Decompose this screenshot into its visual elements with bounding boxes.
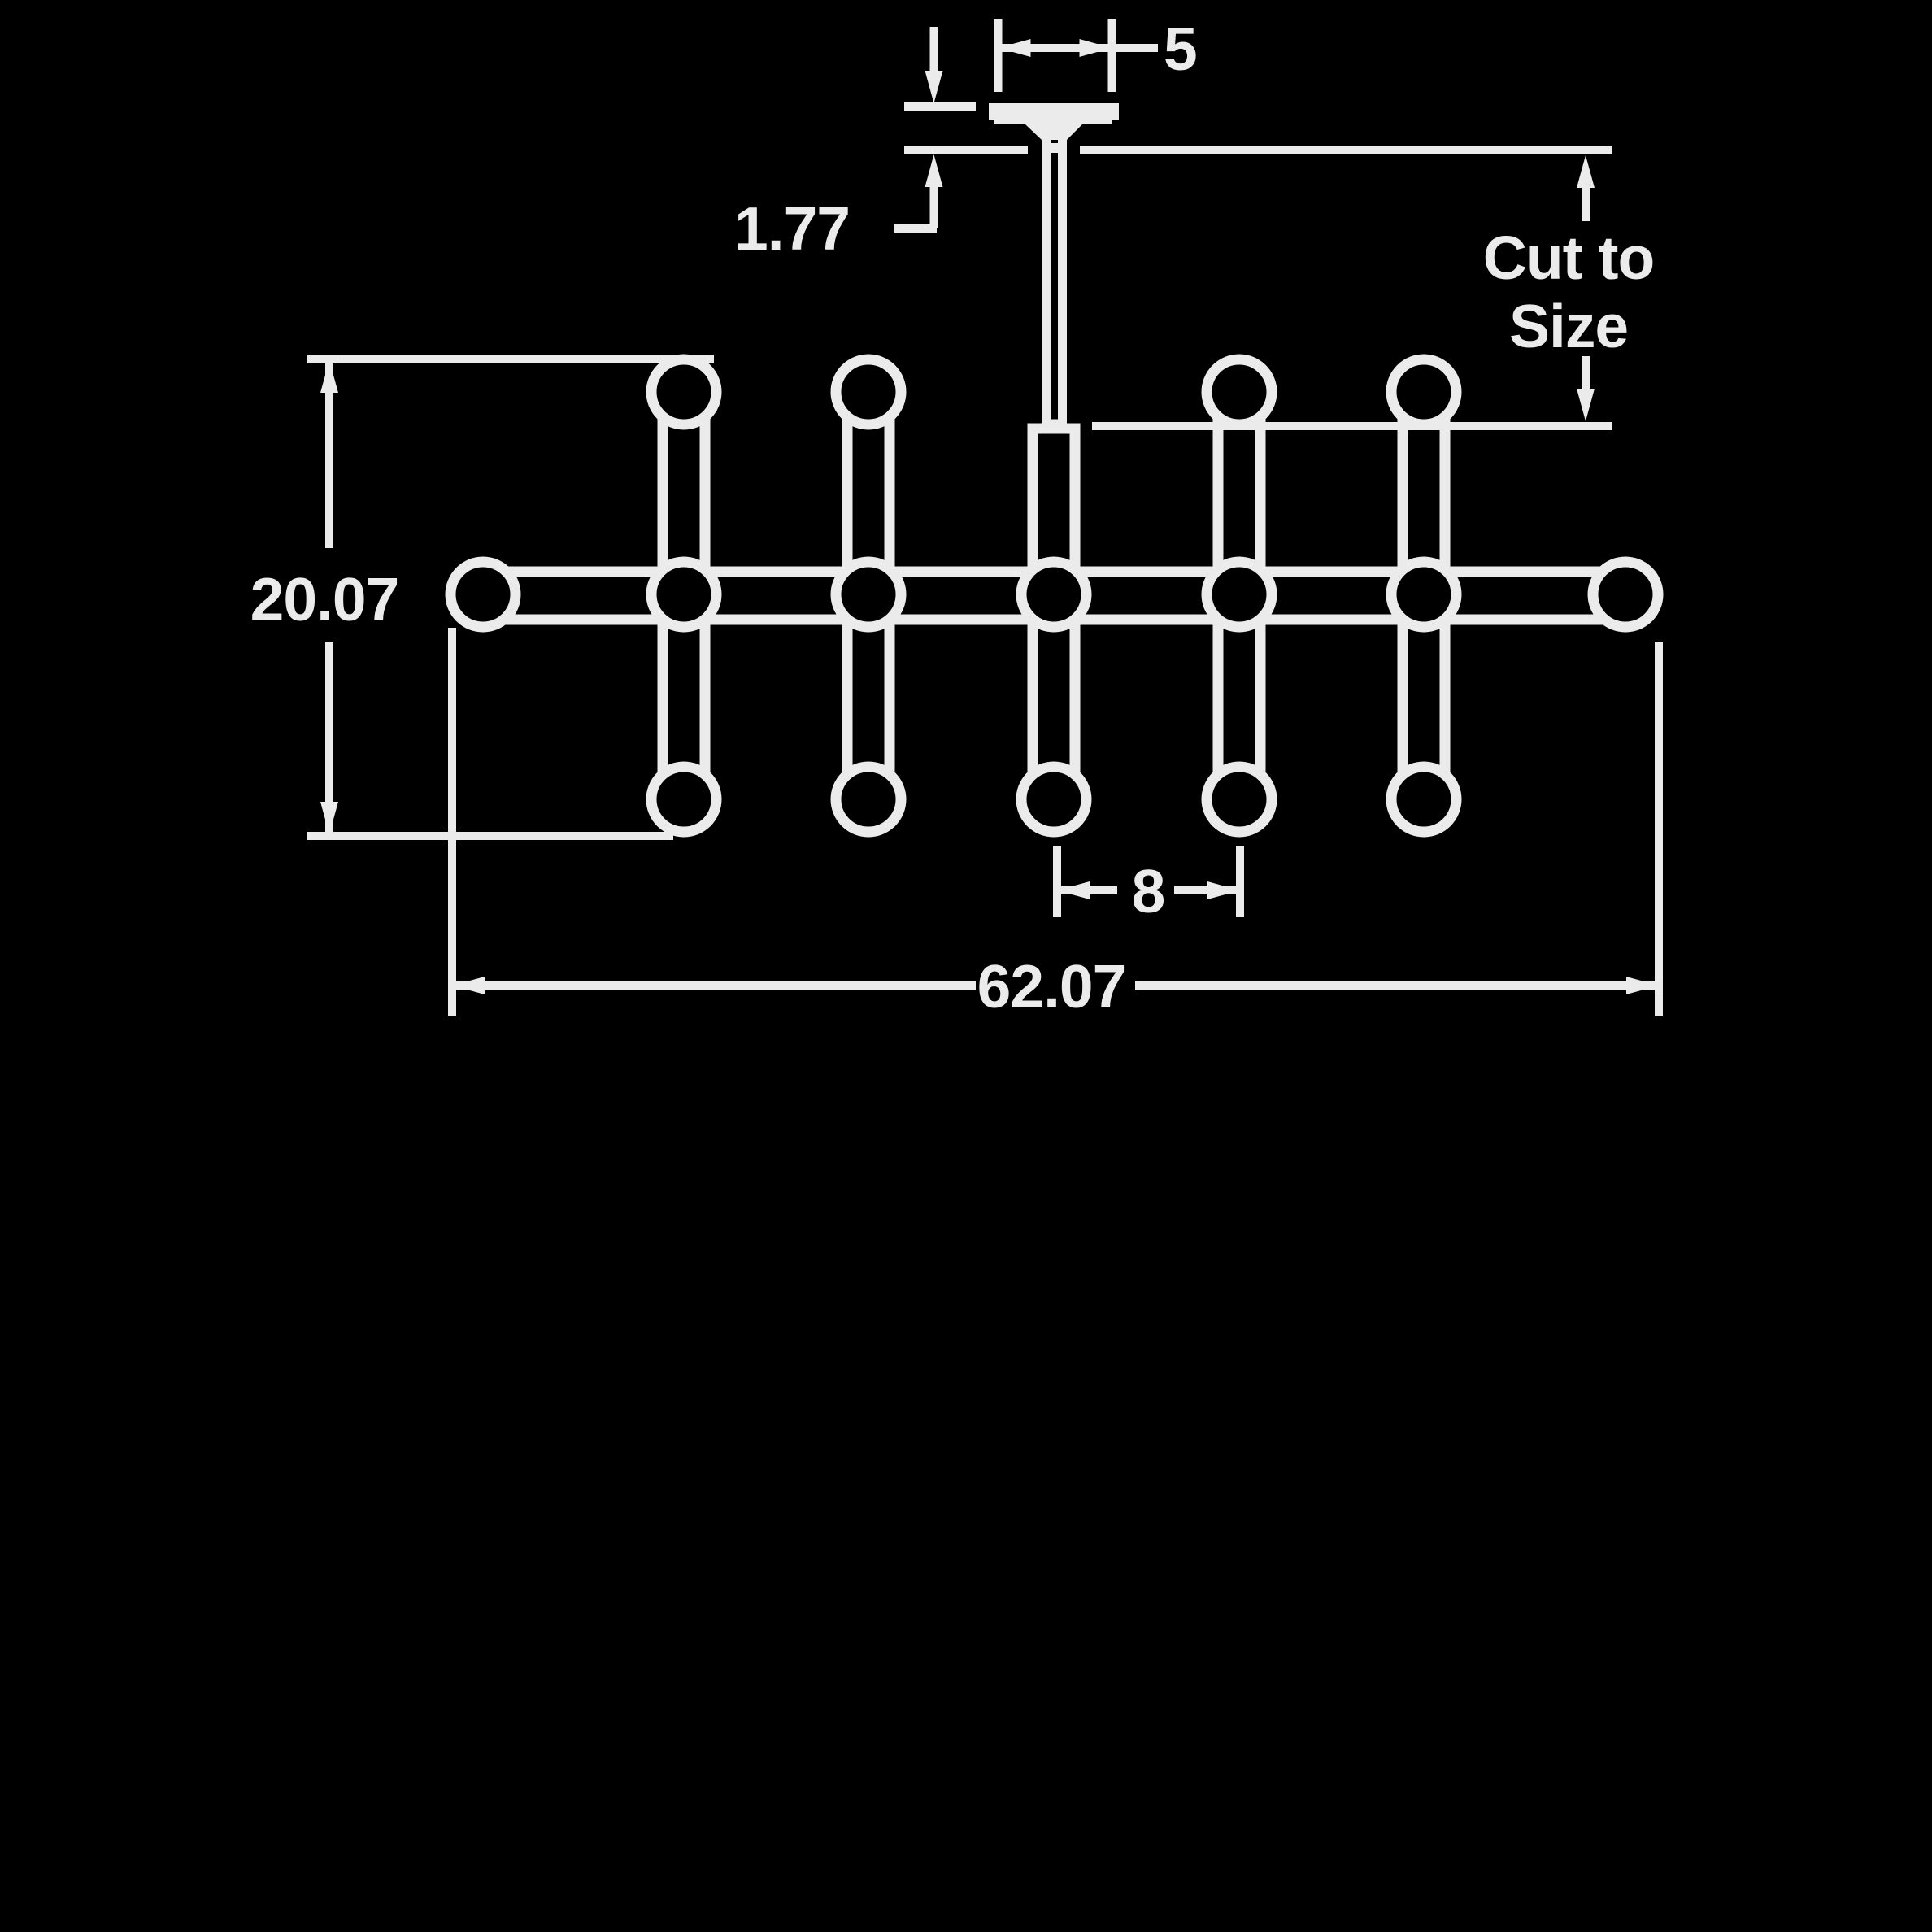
svg-text:Cut to: Cut to: [1483, 224, 1655, 292]
svg-text:20.07: 20.07: [250, 565, 399, 633]
svg-text:5: 5: [1164, 15, 1197, 83]
svg-text:Size: Size: [1509, 292, 1628, 360]
svg-text:1.77: 1.77: [734, 194, 850, 263]
svg-text:8: 8: [1132, 857, 1165, 925]
svg-text:62.07: 62.07: [977, 952, 1126, 1020]
